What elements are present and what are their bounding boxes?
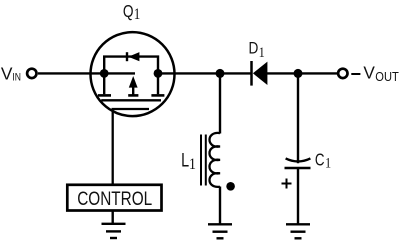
inductor L1 core bars: [201, 135, 206, 186]
svg-text:OUT: OUT: [375, 70, 399, 84]
plus sign of C1: [282, 179, 292, 189]
svg-text:Q: Q: [123, 2, 134, 21]
ground (under CONTROL): [102, 224, 126, 238]
wire: output node down to C1: [297, 73, 299, 163]
svg-text:IN: IN: [12, 71, 21, 83]
label VIN: [1, 63, 21, 83]
node output dot (above C1): [294, 69, 303, 78]
wire: gate lead to CONTROL: [113, 109, 149, 185]
body diode of Q1: [127, 52, 139, 61]
wire: Q1 drain to diode D1: [158, 72, 251, 74]
svg-text:V: V: [1, 63, 13, 83]
transistor Q1 envelope: [91, 32, 175, 116]
svg-text:1: 1: [325, 155, 331, 171]
ground (under C1): [286, 224, 310, 238]
label L1: [181, 150, 196, 174]
svg-text:1: 1: [189, 156, 196, 173]
wire: C1 to ground: [297, 169, 299, 224]
label C1: [315, 151, 331, 171]
svg-text:1: 1: [134, 6, 141, 23]
inductor L1 coil: [210, 133, 221, 187]
Q1 gate electrode: [101, 99, 161, 101]
capacitor C1 curved plate: [286, 158, 311, 161]
node switch-node dot (above L1): [216, 69, 225, 78]
diode D1: [252, 61, 268, 86]
svg-text:L: L: [181, 150, 189, 171]
terminal -VOUT: [338, 69, 347, 78]
label Q1: [123, 2, 140, 23]
phase dot of L1: [226, 182, 235, 191]
label -VOUT: [363, 63, 399, 84]
wire: VIN to Q1 source: [38, 72, 135, 74]
node drain dot: [154, 69, 163, 78]
CONTROL box: [67, 185, 161, 211]
minus sign of -VOUT: [351, 73, 360, 75]
node source dot: [100, 69, 109, 78]
Q1 source stub and channel bar: [98, 73, 111, 95]
svg-text:CONTROL: CONTROL: [77, 189, 152, 210]
svg-text:V: V: [363, 63, 375, 83]
Q1 drain stub and channel bar: [151, 73, 164, 95]
terminal VIN: [27, 69, 36, 78]
svg-text:1: 1: [259, 44, 265, 60]
wire: CONTROL to ground: [111, 211, 113, 224]
wire: D1 to VOUT terminal: [267, 72, 338, 74]
svg-text:D: D: [248, 39, 258, 57]
ground (under L1): [208, 224, 232, 238]
Q1 bulk arrow and middle channel bar: [128, 76, 138, 95]
capacitor C1 straight plate: [285, 167, 311, 170]
wire: L1 to ground: [219, 187, 221, 225]
wire: switch node down to L1: [219, 73, 221, 133]
label D1: [248, 39, 264, 60]
svg-text:C: C: [315, 151, 325, 170]
wire: body-diode bridge: [104, 57, 158, 74]
